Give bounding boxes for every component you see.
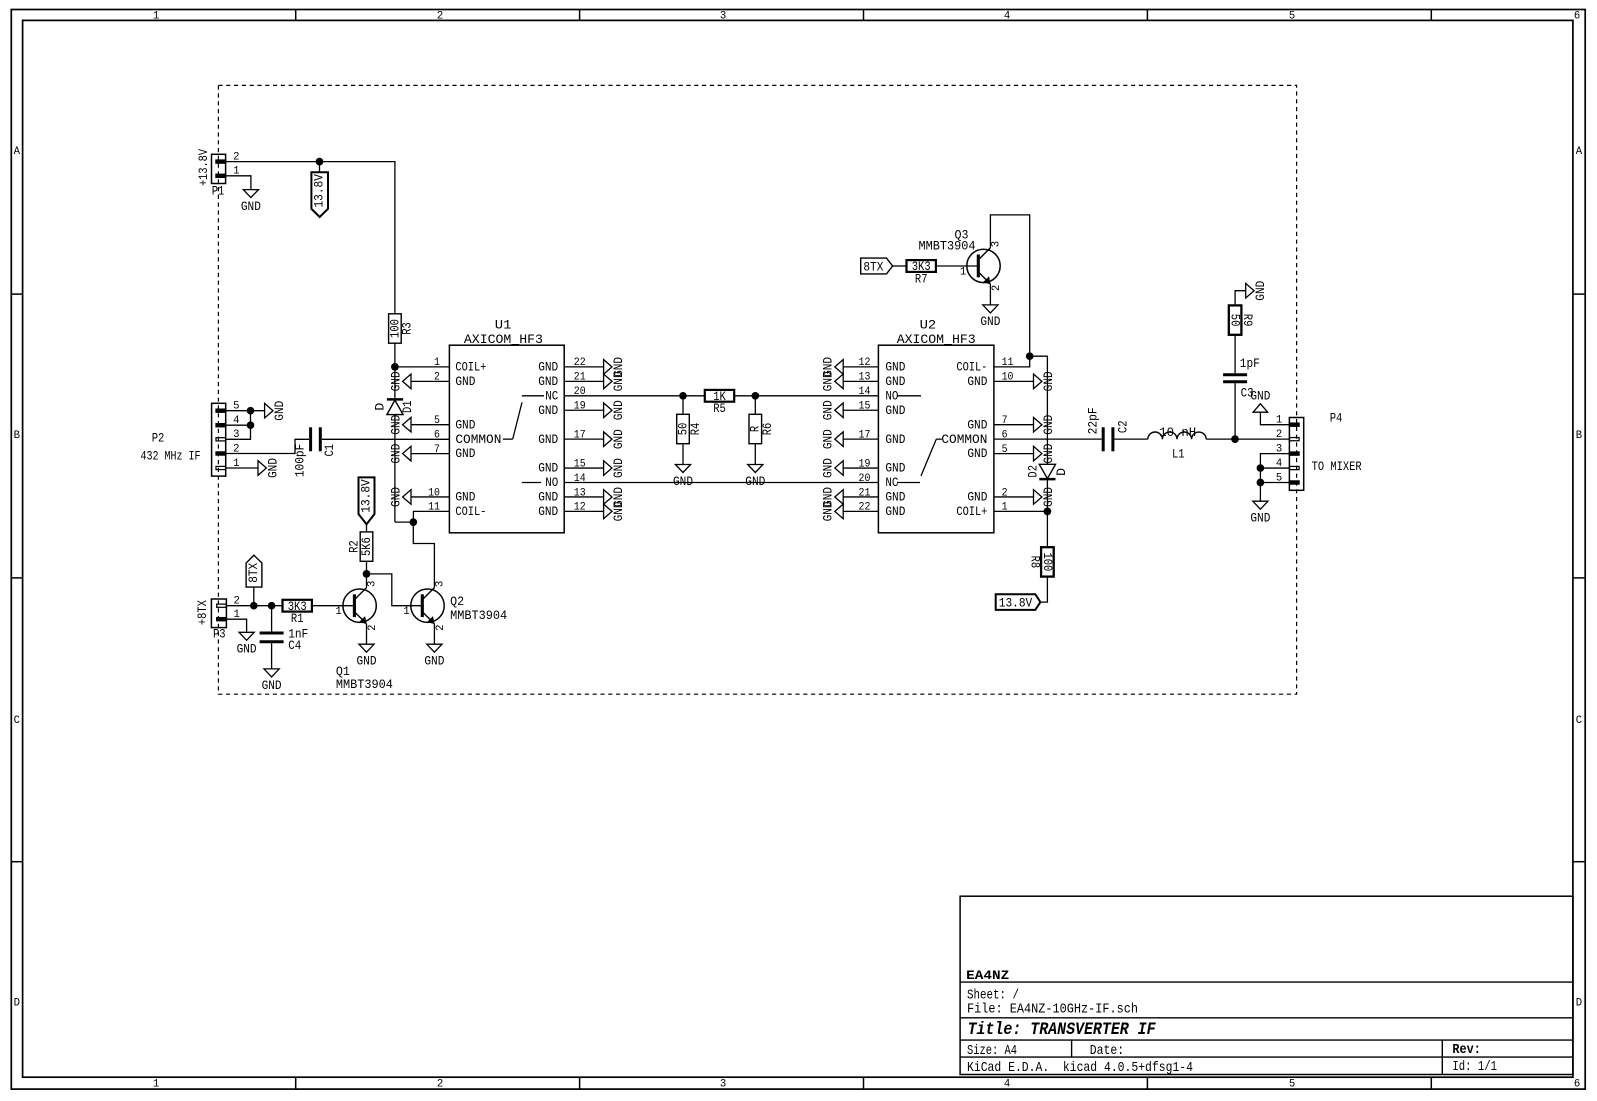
resistor R3 100: [389, 314, 402, 343]
junction R4: [679, 392, 687, 400]
frame row ticks right: [1573, 293, 1585, 295]
svg-text:GND: GND: [538, 432, 558, 447]
wire U1 pin 15 stub: [564, 467, 603, 469]
wire Q3 emitter to ground: [989, 284, 991, 305]
svg-text:1: 1: [403, 606, 409, 618]
svg-text:GND: GND: [1041, 444, 1056, 464]
svg-text:KiCad E.D.A. kicad 4.0.5+dfsg: KiCad E.D.A. kicad 4.0.5+dfsg1-4: [967, 1060, 1193, 1076]
svg-text:D: D: [1576, 997, 1582, 1009]
svg-text:R6: R6: [760, 423, 775, 436]
svg-text:1: 1: [153, 1079, 159, 1091]
dashed selection rectangle: [218, 85, 1296, 694]
wire P1 pin2 to R3: [226, 162, 395, 314]
wire U1 pin11 COIL-: [413, 511, 449, 522]
global label 8TX at Q3: [861, 258, 893, 274]
wire U1 pin 10 stub: [411, 496, 449, 498]
junction 13.8V rail: [316, 158, 324, 166]
svg-text:L1: L1: [1172, 446, 1185, 461]
svg-text:13.8V: 13.8V: [999, 595, 1033, 610]
wire R2 to junction: [366, 561, 368, 574]
svg-text:Id: 1/1: Id: 1/1: [1452, 1059, 1497, 1075]
frame row ticks left: [11, 293, 22, 295]
svg-text:GND: GND: [611, 400, 626, 420]
svg-text:2: 2: [437, 1079, 443, 1091]
svg-text:MMBT3904: MMBT3904: [919, 239, 976, 254]
wire U2 pin 21 stub: [843, 496, 878, 498]
svg-text:GND: GND: [455, 374, 475, 389]
svg-text:GND: GND: [980, 314, 1000, 329]
relay U1 AXICOM_HF3 body: [449, 345, 564, 533]
svg-text:3: 3: [720, 1079, 726, 1091]
wire P3 pin1 to ground: [226, 619, 246, 632]
svg-text:GND: GND: [357, 654, 377, 669]
junction P4 pin5: [1257, 479, 1265, 487]
svg-text:GND: GND: [388, 371, 403, 391]
svg-text:1: 1: [335, 606, 341, 618]
svg-text:R7: R7: [915, 271, 928, 286]
svg-text:3: 3: [435, 581, 447, 587]
svg-text:GND: GND: [388, 444, 403, 464]
svg-text:3: 3: [720, 10, 726, 22]
wire C2 to L1: [1114, 438, 1147, 440]
svg-text:GND: GND: [262, 678, 282, 693]
svg-text:NO: NO: [885, 388, 898, 403]
svg-text:6: 6: [1574, 1079, 1580, 1091]
svg-text:GND: GND: [1041, 371, 1056, 391]
wire U2 pin 2 stub: [994, 496, 1034, 498]
svg-text:1: 1: [960, 266, 966, 278]
wire R3 to U1 COIL+: [394, 343, 396, 367]
svg-text:GND: GND: [1250, 511, 1270, 526]
svg-text:2: 2: [435, 625, 447, 631]
connector P4 TO MIXER: [1289, 418, 1303, 491]
svg-text:GND: GND: [745, 474, 765, 489]
wire P2 pin1 to GND label: [226, 467, 258, 469]
svg-text:1: 1: [434, 357, 440, 369]
wire COIL- node down through D2: [1030, 356, 1048, 464]
GND label at U1 pin 12: [604, 504, 612, 519]
resistor R2 5K6: [366, 524, 368, 532]
svg-text:R8: R8: [1028, 556, 1043, 569]
svg-text:+13.8V: +13.8V: [196, 149, 211, 186]
resistor R4 50: [682, 396, 684, 415]
svg-text:D: D: [372, 403, 387, 411]
svg-text:13.8V: 13.8V: [358, 479, 373, 513]
GND label at P2 pin5: [265, 403, 273, 418]
svg-text:13.8V: 13.8V: [311, 174, 326, 208]
junction at U1 pin1: [391, 363, 399, 371]
GND label at U2 pin 17: [835, 432, 843, 447]
GND label at U2 pin 7: [1034, 417, 1042, 432]
svg-text:A: A: [14, 146, 21, 158]
wire junction to Q2 base: [367, 574, 423, 606]
diode D2: [1039, 464, 1055, 478]
svg-text:GND: GND: [455, 446, 475, 461]
wire U2 pin1 COIL+: [994, 510, 1048, 512]
svg-text:GND: GND: [1041, 415, 1056, 435]
svg-text:D1: D1: [400, 400, 415, 413]
GND label at U1 pin 22: [604, 360, 612, 375]
svg-text:GND: GND: [885, 432, 905, 447]
junction COIL+ node: [1044, 508, 1052, 516]
wire R7 to Q3 base: [936, 265, 978, 267]
svg-text:P3: P3: [213, 626, 226, 641]
svg-text:GND: GND: [885, 490, 905, 505]
svg-text:+8TX: +8TX: [195, 600, 210, 625]
wire Q3 collector to U2 COIL-: [990, 215, 1029, 356]
wire junction to Q2 collector: [413, 522, 434, 588]
svg-text:C4: C4: [288, 638, 301, 653]
resistor R9 50: [1229, 305, 1242, 334]
svg-text:NO: NO: [545, 475, 558, 490]
wire P1 pin1 to ground: [226, 176, 251, 190]
svg-text:100pF: 100pF: [292, 444, 307, 478]
svg-text:2: 2: [1276, 429, 1282, 441]
wire U1 pin 7 stub: [411, 453, 449, 455]
svg-text:GND: GND: [885, 360, 905, 375]
svg-text:COMMON: COMMON: [941, 432, 987, 447]
wire U1 pin 17 stub: [564, 438, 603, 440]
svg-text:GND: GND: [538, 360, 558, 375]
wire R8 to 13.8V flag: [1040, 577, 1047, 603]
wire U2 pin11 COIL-: [994, 356, 1030, 367]
svg-text:22pF: 22pF: [1086, 407, 1101, 434]
svg-text:1: 1: [153, 10, 159, 22]
GND label at U2 pin 22: [835, 504, 843, 519]
resistor R5 1K: [705, 390, 734, 402]
svg-text:3: 3: [990, 241, 1002, 247]
svg-text:GND: GND: [538, 504, 558, 519]
svg-text:8TX: 8TX: [246, 563, 261, 583]
junction COIL- node: [1026, 352, 1034, 360]
connector P1: [212, 154, 226, 183]
junction R6: [751, 392, 759, 400]
junction P2 pin5: [247, 407, 255, 415]
wire U2 pin 17 stub: [843, 438, 878, 440]
GND label at U2 pin 5: [1034, 446, 1042, 461]
svg-text:GND: GND: [967, 417, 987, 432]
GND label at U2 pin 2: [1034, 490, 1042, 505]
svg-text:COIL+: COIL+: [455, 360, 486, 375]
svg-text:P1: P1: [212, 183, 225, 198]
svg-text:GND: GND: [821, 429, 836, 449]
svg-text:2: 2: [367, 625, 379, 631]
power flag 13.8V at R2: [359, 477, 375, 524]
svg-text:A: A: [1576, 146, 1583, 158]
svg-text:COMMON: COMMON: [455, 432, 501, 447]
wire U2 pin 19 stub: [843, 467, 878, 469]
svg-text:NC: NC: [545, 388, 558, 403]
junction P2 pin4: [247, 421, 255, 429]
svg-text:GND: GND: [885, 403, 905, 418]
wire P2 pins 5-4-3 tied: [226, 410, 265, 412]
svg-text:GND: GND: [538, 374, 558, 389]
svg-text:GND: GND: [538, 490, 558, 505]
GND label at U1 pin 7: [403, 446, 411, 461]
svg-text:Date:: Date:: [1090, 1043, 1124, 1059]
wire U1 pin 5 stub: [411, 424, 449, 426]
wire U2 pin 13 stub: [843, 380, 878, 382]
wire Q1 emitter to ground: [366, 624, 368, 644]
svg-text:5: 5: [1289, 1079, 1295, 1091]
svg-text:2: 2: [437, 10, 443, 22]
svg-text:GND: GND: [538, 403, 558, 418]
wire C1 to U1 COMMON: [322, 438, 450, 440]
title block outline: [960, 896, 1573, 1074]
U2 relay switch lever: [897, 395, 921, 397]
junction C4 tap: [268, 602, 276, 610]
U1 relay switch lever: [522, 395, 544, 397]
svg-text:20: 20: [859, 473, 871, 485]
svg-text:Title: TRANSVERTER IF: Title: TRANSVERTER IF: [968, 1021, 1156, 1040]
ground at P1: [243, 190, 258, 198]
wire U1 NC to R5: [564, 395, 705, 397]
GND label at U1 pin 21: [604, 374, 612, 389]
GND label at U2 pin 12: [835, 360, 843, 375]
svg-text:P2: P2: [152, 431, 165, 446]
wire R1 to Q1 base: [312, 605, 354, 607]
svg-text:3: 3: [367, 581, 379, 587]
wire P3 pin2 to R1: [226, 605, 282, 607]
capacitor C2 22pF: [994, 438, 1102, 440]
wire U2 pin 12 stub: [843, 366, 878, 368]
svg-text:COIL-: COIL-: [455, 504, 486, 519]
wire U1 pin 12 stub: [564, 510, 603, 512]
GND label at U1 pin 13: [604, 490, 612, 505]
GND label at U2 pin 15: [835, 403, 843, 418]
svg-text:GND: GND: [1253, 281, 1268, 301]
title block dividers: [960, 981, 1573, 983]
GND label at U1 pin 19: [604, 403, 612, 418]
GND label at U2 pin 21: [835, 490, 843, 505]
svg-text:MMBT3904: MMBT3904: [336, 677, 393, 692]
GND label at U2 pin 10: [1034, 374, 1042, 389]
capacitor C4 1nF: [271, 606, 273, 632]
svg-text:GND: GND: [1250, 388, 1270, 403]
svg-text:U1: U1: [495, 318, 512, 333]
svg-text:AXICOM_HF3: AXICOM_HF3: [464, 332, 543, 347]
svg-text:GND: GND: [388, 487, 403, 507]
svg-text:2: 2: [991, 285, 1003, 291]
svg-text:GND: GND: [611, 458, 626, 478]
svg-text:D: D: [1054, 468, 1069, 476]
svg-text:GND: GND: [821, 371, 836, 391]
svg-text:Size: A4: Size: A4: [967, 1043, 1017, 1059]
svg-text:GND: GND: [538, 461, 558, 476]
svg-text:AXICOM_HF3: AXICOM_HF3: [897, 332, 976, 347]
svg-text:4: 4: [1004, 10, 1010, 22]
junction P4 pin4: [1257, 464, 1265, 472]
svg-text:GND: GND: [1041, 487, 1056, 507]
svg-text:GND: GND: [388, 415, 403, 435]
wire R9 to GND label: [1235, 291, 1246, 306]
GND label at U1 pin 17: [604, 432, 612, 447]
svg-text:GND: GND: [821, 458, 836, 478]
wire U1 NO to U2 NC: [564, 482, 878, 484]
svg-text:GND: GND: [967, 374, 987, 389]
svg-text:GND: GND: [266, 458, 281, 478]
svg-text:GND: GND: [455, 417, 475, 432]
wire 8TX to R7: [893, 265, 907, 267]
resistor R6 R: [754, 396, 756, 415]
svg-text:5: 5: [1289, 10, 1295, 22]
wire U2 pin 15 stub: [843, 409, 878, 411]
global label 8TX at P3: [253, 587, 255, 606]
svg-text:COIL+: COIL+: [956, 504, 987, 519]
wire U1 pin 19 stub: [564, 409, 603, 411]
frame column ticks top: [295, 10, 297, 21]
capacitor C3 1pF: [1234, 335, 1236, 374]
svg-text:GND: GND: [424, 654, 444, 669]
wire P4 pins 3-4-5 tied to ground: [1260, 454, 1289, 502]
svg-text:GND: GND: [967, 490, 987, 505]
wire R5 to U2 NO: [734, 395, 878, 397]
svg-text:GND: GND: [455, 490, 475, 505]
svg-text:TO MIXER: TO MIXER: [1312, 459, 1362, 474]
resistor R7 3K3: [907, 260, 936, 272]
connector P3 +8TX: [211, 599, 226, 628]
wire U2 pin 7 stub: [994, 424, 1034, 426]
GND label at U2 pin 19: [835, 461, 843, 476]
GND label at U2 pin 13: [835, 374, 843, 389]
wire U2 pin 5 stub: [994, 453, 1034, 455]
svg-text:P4: P4: [1330, 411, 1343, 426]
frame column ticks bottom: [295, 1077, 297, 1089]
svg-text:MMBT3904: MMBT3904: [450, 608, 507, 623]
svg-text:GND: GND: [821, 501, 836, 521]
svg-text:GND: GND: [611, 429, 626, 449]
wire U1 pin 2 stub: [411, 380, 449, 382]
svg-text:1pF: 1pF: [1240, 356, 1260, 371]
wire P4 pin1 to ground: [1260, 412, 1289, 425]
svg-text:8TX: 8TX: [863, 260, 883, 275]
power flag 13.8V at R8: [996, 594, 1041, 610]
svg-text:R2: R2: [347, 540, 362, 553]
svg-text:GND: GND: [272, 401, 287, 421]
svg-text:Rev:: Rev:: [1452, 1042, 1480, 1058]
svg-text:R5: R5: [713, 401, 726, 416]
wire C3 to output node: [1234, 383, 1236, 439]
svg-text:Q2: Q2: [450, 594, 464, 609]
wire L1 to P4 pin2: [1206, 438, 1289, 440]
svg-text:GND: GND: [967, 446, 987, 461]
svg-text:R1: R1: [291, 611, 304, 626]
svg-text:C1: C1: [322, 444, 337, 457]
resistor R1 3K3: [283, 600, 312, 612]
ground above P4 pin1: [1253, 404, 1268, 412]
ground at C4: [271, 643, 273, 669]
svg-text:432 MHz IF: 432 MHz IF: [141, 448, 201, 463]
svg-text:GND: GND: [241, 199, 261, 214]
svg-text:File: EA4NZ-10GHz-IF.sch: File: EA4NZ-10GHz-IF.sch: [967, 1002, 1138, 1018]
svg-text:B: B: [14, 430, 20, 442]
ground at R4: [682, 444, 684, 465]
svg-text:C: C: [1576, 715, 1582, 727]
svg-text:C2: C2: [1115, 421, 1130, 434]
svg-text:14: 14: [859, 386, 871, 398]
diode D1: [394, 367, 396, 400]
ground at R6: [754, 444, 756, 465]
svg-text:B: B: [1576, 430, 1582, 442]
GND label at U1 pin 5: [403, 417, 411, 432]
svg-text:GND: GND: [885, 374, 905, 389]
svg-text:GND: GND: [885, 461, 905, 476]
junction 8TX stem: [250, 602, 258, 610]
GND label at U1 pin 2: [403, 374, 411, 389]
wire Q2 emitter to ground: [433, 624, 435, 644]
wire U2 pin 10 stub: [994, 380, 1034, 382]
GND label at U1 pin 10: [403, 490, 411, 505]
connector P2 432 MHz IF: [212, 403, 226, 476]
junction D1 bottom: [409, 518, 417, 526]
svg-text:GND: GND: [885, 504, 905, 519]
GND label at U1 pin 15: [604, 461, 612, 476]
wire U2 pin 22 stub: [843, 510, 878, 512]
wire U1 pin 13 stub: [564, 496, 603, 498]
transistor Q1 MMBT3904: [343, 589, 376, 622]
wire Q1 collector to R2 junction: [366, 574, 368, 588]
resistor R8 100: [1041, 547, 1054, 576]
wire U1 pin1 stub: [395, 366, 450, 368]
svg-text:C: C: [14, 715, 20, 727]
svg-text:U2: U2: [920, 318, 937, 333]
svg-text:R4: R4: [688, 423, 703, 436]
svg-text:GND: GND: [611, 501, 626, 521]
svg-text:D2: D2: [1025, 465, 1040, 478]
svg-text:6: 6: [1574, 10, 1580, 22]
svg-text:10 nH: 10 nH: [1159, 425, 1196, 440]
junction Q1 collector: [363, 570, 371, 578]
ground below P4: [1253, 501, 1268, 509]
svg-text:R9: R9: [1240, 314, 1255, 327]
svg-text:GND: GND: [673, 474, 693, 489]
svg-text:COIL-: COIL-: [956, 360, 987, 375]
wire P2 pin2 to C1: [226, 439, 309, 453]
transistor Q3 MMBT3904: [967, 249, 1000, 282]
relay U2 AXICOM_HF3 body: [878, 345, 994, 533]
wire U1 pin 22 stub: [564, 366, 603, 368]
wire U1 pin 21 stub: [564, 380, 603, 382]
capacitor C1 100pF: [309, 427, 312, 451]
junction output node: [1231, 435, 1239, 443]
svg-text:4: 4: [1004, 1079, 1010, 1091]
power flag 13.8V at P1: [319, 162, 321, 173]
svg-text:GND: GND: [611, 371, 626, 391]
inductor L1 10 nH: [1148, 432, 1206, 439]
svg-text:EA4NZ: EA4NZ: [966, 968, 1009, 983]
svg-text:GND: GND: [237, 642, 257, 657]
svg-text:GND: GND: [821, 400, 836, 420]
svg-text:R3: R3: [400, 322, 415, 335]
svg-text:D: D: [14, 997, 20, 1009]
svg-text:NC: NC: [885, 475, 898, 490]
transistor Q2 MMBT3904: [411, 589, 444, 622]
